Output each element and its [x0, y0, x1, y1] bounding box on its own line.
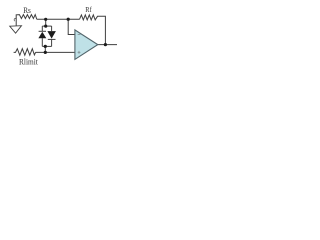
svg-text:Rf: Rf — [85, 5, 92, 14]
svg-text:Rlimit: Rlimit — [19, 57, 39, 66]
svg-text:Rs: Rs — [23, 6, 31, 15]
